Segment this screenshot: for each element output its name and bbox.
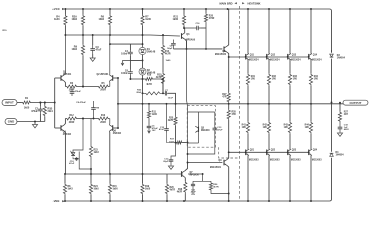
wire LED column: [141, 35, 144, 47]
transistor Q2 2N5401: [112, 75, 114, 81]
svg-text:MJ15003: MJ15003: [312, 159, 322, 161]
capacitor C7 10uF: [162, 92, 164, 94]
svg-text:Q11: Q11: [250, 54, 255, 56]
svg-text:MJ15024: MJ15024: [270, 59, 280, 62]
wire tail to cluster: [73, 119, 83, 153]
svg-text:1k43: 1k43: [54, 18, 60, 21]
svg-text:2N5403: 2N5403: [63, 133, 72, 136]
wire output Q22 emitter resistor (bottom): [268, 104, 270, 121]
wire +VCC top rail: [65, 9, 332, 53]
capacitor C9 56pF: [172, 40, 174, 42]
wire input: [17, 102, 22, 104]
wire second rail top: [65, 35, 179, 36]
wire predriver base: [173, 48, 222, 50]
ground terminal: [5, 119, 17, 125]
svg-text:MPSA06: MPSA06: [186, 39, 196, 42]
svg-text:2N5403: 2N5403: [113, 132, 122, 135]
transistor Q3 MPSA06 VAS: [181, 33, 183, 39]
wire Q4 collector down: [64, 131, 65, 174]
wire Q7 collector down: [184, 177, 187, 181]
resistor R7 10k0: [142, 9, 144, 15]
svg-text:1k00: 1k00: [152, 114, 158, 116]
svg-text:1N4004: 1N4004: [337, 56, 346, 59]
svg-text:1k43: 1k43: [68, 187, 74, 190]
svg-text:200R: 200R: [100, 90, 106, 92]
wire Q2 collector up: [109, 35, 111, 75]
svg-text:470uF: 470uF: [75, 90, 82, 93]
wire output Q23 emitter resistor (bottom): [289, 104, 291, 121]
resistor R4 1k43: [64, 9, 66, 15]
capacitor C8 470uF mid: [93, 101, 95, 105]
wire output Q21 emitter resistor (bottom): [247, 104, 249, 121]
zener D7 mark: [75, 157, 78, 161]
wire stack mid link: [130, 56, 141, 60]
wire output Q22 collector to rail: [268, 155, 270, 201]
wire ground bus: [17, 121, 45, 123]
svg-text:MJ15024: MJ15024: [249, 59, 259, 62]
wire C9 to base bus: [172, 47, 174, 49]
wire R14 to R10: [162, 56, 164, 72]
svg-text:Q24: Q24: [313, 149, 318, 152]
svg-text:GND: GND: [8, 120, 14, 124]
resistor R6 10k0: [109, 9, 111, 15]
wire Q8 emitter down: [227, 52, 229, 92]
svg-text:1k87: 1k87: [169, 141, 175, 143]
svg-text:47R: 47R: [232, 113, 237, 116]
diode D3 1N4004 top: [330, 54, 334, 57]
LED D2 1N4148: [139, 68, 146, 75]
wire R32 to bus: [268, 86, 270, 104]
resistor R20 470R: [205, 9, 207, 13]
svg-text:47R: 47R: [222, 95, 227, 98]
ground symbol input: [34, 122, 36, 125]
wire LED bottom: [142, 75, 144, 79]
svg-text:1k00: 1k00: [113, 188, 119, 190]
wire C3 tap: [83, 34, 93, 36]
ground arrow feedback shunt: [148, 130, 151, 134]
svg-text:100nF: 100nF: [121, 73, 128, 75]
wire cap row to R20 column: [200, 27, 206, 29]
ground C12: [170, 164, 172, 166]
capacitor C15 47uF: [166, 104, 168, 127]
wire output Q11 emitter: [247, 60, 249, 73]
svg-text:1R0: 1R0: [284, 127, 289, 129]
board split dashed line: [239, 6, 241, 199]
transistor Q8 MJE15030: [223, 46, 225, 52]
svg-text:10k0: 10k0: [94, 188, 100, 190]
resistor R1 1k00: [22, 101, 32, 104]
resistor R21 1k00: [183, 9, 185, 15]
wire stack bottom link: [130, 76, 142, 80]
transistor Q5 MJE340 bias: [198, 127, 200, 133]
resistor R9 10k0: [82, 35, 84, 44]
resistor R2A 10k0: [82, 9, 84, 15]
resistor R22 20k0 feedback: [143, 92, 144, 94]
wire output Q24 collector to rail: [310, 155, 312, 201]
resistor R11 1k00 feedback shunt: [148, 104, 150, 110]
resistor R19 1k00 (col4): [142, 174, 144, 183]
wire input base bus: [54, 78, 56, 128]
wire lower bus: [65, 173, 183, 175]
svg-text:MJ15003: MJ15003: [270, 159, 280, 161]
wire output Q23 collector to rail: [289, 155, 291, 201]
svg-text:MJ15024: MJ15024: [291, 59, 301, 62]
wire C11 R26 top bar: [193, 180, 211, 182]
svg-text:1k00: 1k00: [166, 60, 172, 62]
resistor R42 1R0 (bottom): [267, 121, 270, 134]
resistor R44 1R0 (bottom): [309, 121, 312, 134]
wire lower predriver base: [188, 162, 223, 164]
resistor R13 200R right lower: [97, 117, 110, 120]
resistor R23 4k7 (col5): [166, 174, 168, 183]
capacitor C5b 470uF shunt: [148, 119, 150, 125]
svg-text:10k0: 10k0: [71, 48, 77, 51]
wire Q6 collector down: [109, 131, 111, 174]
wire C15 down to R17 row: [167, 133, 176, 143]
svg-text:1N4004: 1N4004: [336, 154, 345, 157]
svg-text:1R0: 1R0: [242, 127, 247, 129]
svg-text:MJ15003: MJ15003: [291, 159, 301, 161]
svg-text:MJE15030: MJE15030: [215, 54, 227, 56]
transistor Q4 2N5551: [55, 127, 61, 129]
svg-text:470R: 470R: [209, 17, 215, 20]
wire Q6 emitter up: [109, 119, 111, 125]
svg-text:1R0: 1R0: [251, 78, 256, 80]
svg-text:1R0: 1R0: [272, 78, 277, 80]
svg-text:22pF: 22pF: [163, 161, 169, 163]
resistor R17 1k8 horizontal: [175, 142, 177, 144]
wire cluster L to column: [79, 152, 91, 175]
svg-text:1R0: 1R0: [293, 78, 298, 80]
transistor Q14 MJ15024 (top output): [308, 54, 310, 60]
svg-text:25V: 25V: [191, 194, 195, 196]
transistor Q12 MJ15024 (top output): [266, 54, 268, 60]
svg-text:Q12: Q12: [271, 54, 276, 56]
svg-text:Q22: Q22: [271, 150, 276, 152]
capacitor C3 47uF: [92, 35, 94, 45]
transistor Q22 MJ15025 (bottom output): [268, 134, 270, 149]
svg-text:4k7R: 4k7R: [213, 185, 219, 188]
svg-text:4k7R: 4k7R: [146, 83, 152, 86]
resistor R2 200R left: [65, 85, 78, 88]
capacitor C18 1uF zobel: [339, 123, 341, 125]
wire Q4 emitter up: [64, 119, 65, 125]
wire output Q21 collector to rail: [247, 155, 249, 201]
wire collector link to cap row: [184, 26, 195, 28]
svg-text:INPUT: INPUT: [5, 101, 14, 105]
wire Q7 emitter to bias col: [185, 163, 188, 171]
resistor R14 4k7: [162, 35, 164, 44]
svg-text:56pF: 56pF: [167, 48, 173, 50]
wire LED stack top link: [110, 43, 142, 45]
bias network dashed box: [187, 106, 215, 148]
wire c11 r26 bottom join: [193, 188, 229, 194]
junction dots: [64, 8, 66, 10]
svg-text:1R0: 1R0: [305, 127, 310, 129]
wire feedback base bus: [117, 78, 119, 128]
svg-text:Q14: Q14: [313, 53, 318, 56]
capacitor C4 100nF: [129, 44, 131, 50]
svg-text:400V: 400V: [344, 128, 350, 131]
svg-text:10uF: 10uF: [168, 98, 174, 100]
svg-text:1k00: 1k00: [24, 107, 30, 110]
svg-text:4k7R: 4k7R: [177, 190, 183, 193]
svg-text:Q23: Q23: [292, 150, 297, 152]
resistor R10 4k7: [161, 72, 164, 85]
wire Q8 collector to rail: [227, 9, 229, 46]
wire Q3 collector up: [184, 28, 186, 33]
svg-text:MJ15024: MJ15024: [312, 59, 322, 62]
svg-text:1k43: 1k43: [94, 151, 100, 154]
svg-text:4k7R: 4k7R: [165, 53, 171, 56]
resistor R26 4k7: [210, 180, 212, 183]
resistor R33 1R0 (top): [288, 73, 291, 86]
svg-text:47uF: 47uF: [217, 128, 223, 131]
svg-text:OUTPUT: OUTPUT: [350, 101, 362, 105]
transistor Q23 MJ15025 (bottom output): [289, 134, 291, 149]
output terminal: [343, 100, 368, 105]
svg-text:1R0: 1R0: [263, 127, 268, 129]
wire D3 to bus: [331, 59, 333, 103]
wire -VEE bottom rail: [65, 158, 332, 201]
wire mid column down: [142, 93, 144, 174]
svg-text:R18: R18: [147, 75, 152, 77]
svg-text:4R7: 4R7: [344, 113, 349, 116]
wire output Q14 collector column: [310, 9, 312, 54]
wire top base bus: [229, 56, 309, 58]
wire column91 to staple node: [90, 158, 92, 174]
svg-text:20k0: 20k0: [136, 92, 142, 94]
capacitor C11 47uF 25V: [192, 180, 194, 183]
wire bottom base bus: [229, 151, 309, 153]
wire bias Q5 column: [198, 112, 200, 143]
wire output Q13 collector column: [289, 9, 291, 54]
wire C8 to lower node: [93, 112, 95, 119]
svg-text:-VEE: -VEE: [53, 199, 60, 203]
diode D4 1N4004 bottom: [330, 153, 334, 156]
wire C11 R26 riser: [188, 174, 203, 181]
svg-text:MJE340: MJE340: [201, 129, 210, 132]
svg-text:Q2 2N5401: Q2 2N5401: [97, 73, 110, 76]
svg-text:470uF: 470uF: [31, 110, 38, 113]
wire Q9 collector down: [227, 166, 229, 201]
wire D4 to bus: [331, 103, 333, 152]
resistor R15 1k00 (col3): [109, 174, 111, 183]
wire bias column: [187, 41, 188, 163]
resistor R24 10k0 (col2): [90, 169, 92, 183]
wire tail node bottom: [78, 118, 97, 120]
transistor Q21 MJ15025 (bottom output): [247, 134, 249, 149]
svg-text:MJE15031: MJE15031: [210, 167, 222, 169]
wire output Q14 emitter: [310, 60, 312, 73]
svg-text:47uF: 47uF: [96, 49, 102, 52]
transistor Q1 2N5401: [55, 77, 61, 79]
svg-text:R12: R12: [69, 115, 74, 117]
resistor R5 200R right: [97, 85, 110, 88]
svg-text:R13: R13: [101, 115, 106, 117]
svg-text:MAIN BRD: MAIN BRD: [220, 1, 233, 5]
wire bias box bottom bar: [188, 142, 199, 144]
svg-text:200R: 200R: [100, 122, 106, 124]
wire output Q13 emitter: [289, 60, 291, 73]
dashed heatsink notch: [219, 147, 240, 158]
capacitor C5 470uF tail: [71, 87, 73, 90]
wire output Q11 collector column: [247, 9, 249, 54]
svg-text:100nF: 100nF: [121, 53, 128, 55]
svg-text:16V: 16V: [152, 130, 156, 132]
svg-text:1k00: 1k00: [172, 18, 178, 21]
svg-text:4k7R: 4k7R: [170, 188, 176, 191]
transistor Q6 2N5551: [112, 125, 114, 131]
resistor R28 47R lower: [227, 109, 230, 120]
resistor R27 47R: [227, 92, 230, 103]
capacitor C12 22pF: [171, 143, 176, 158]
wire output Q12 emitter: [268, 60, 270, 73]
svg-text:1k00: 1k00: [145, 18, 151, 21]
svg-text:Q13: Q13: [292, 54, 297, 56]
svg-text:10k0: 10k0: [71, 18, 77, 21]
wire between LEDs: [142, 55, 144, 69]
wire input node: [32, 102, 55, 104]
transistor Q24 MJ15025 (bottom output): [310, 134, 312, 149]
wire output bus: [118, 103, 343, 105]
wire R31 to bus: [247, 86, 249, 104]
wire Q3 emitter to bias column: [185, 39, 187, 49]
capacitor C16 47nF series: [195, 27, 200, 29]
input terminal: [2, 100, 17, 106]
transistor Q9 MJE15031: [223, 160, 225, 166]
capacitor C13 47uF bias: [214, 112, 216, 125]
svg-text:10k0: 10k0: [98, 18, 104, 21]
svg-text:C8 470uF: C8 470uF: [76, 101, 86, 104]
svg-text:200R: 200R: [69, 122, 75, 124]
transistor Q11 MJ15024 (top output): [245, 54, 247, 60]
svg-text:MJ15003: MJ15003: [249, 159, 259, 161]
wire tail node top: [78, 86, 97, 88]
resistor R23 1k43: [89, 145, 92, 158]
resistor R34 1R0 (top): [309, 73, 312, 86]
wire R20 to Q8 base bus: [205, 23, 207, 49]
wire output Q12 collector column: [268, 9, 270, 54]
wire Q2 emitter: [109, 81, 111, 86]
wire R18 row: [143, 78, 164, 80]
svg-text:+VCC: +VCC: [52, 7, 61, 11]
LED D1 1N4148: [139, 47, 146, 54]
resistor R1B 22k1: [44, 103, 46, 106]
resistor R25 4k7 bias: [175, 104, 177, 116]
resistor R31 1R0 (top): [246, 73, 249, 86]
wire Q9 emitter up: [227, 120, 229, 159]
wire R33 to bus: [289, 86, 291, 104]
svg-text:4k7R: 4k7R: [168, 119, 174, 122]
wire tail column top: [82, 74, 84, 87]
resistor R16 4k7 q7: [184, 181, 187, 194]
svg-text:22k1: 22k1: [48, 110, 54, 113]
resistor R43 1R0 (bottom): [288, 121, 291, 134]
resistor R32 1R0 (top): [267, 73, 270, 86]
wire Q1 collector up: [64, 35, 65, 75]
svg-text:1R0: 1R0: [314, 78, 319, 80]
wire C13 down corner: [188, 133, 215, 154]
wire bias box internal top bar: [188, 111, 215, 113]
wire column91 upper: [90, 119, 92, 146]
svg-text:1k00: 1k00: [145, 188, 151, 190]
resistor R12 200R left lower: [65, 117, 78, 120]
capacitor C6 100nF: [129, 60, 131, 69]
wire Q1 emitter: [64, 81, 65, 86]
transistor Q7 MPSA56 lower driver: [181, 171, 183, 177]
wire R34 to bus: [310, 86, 312, 104]
diode D5 reference: [71, 153, 75, 156]
svg-text:Q21: Q21: [250, 150, 255, 152]
svg-text:47uF: 47uF: [69, 162, 75, 165]
resistor R8 1k43 (col1): [63, 183, 66, 195]
resistor R41 1R0 (bottom): [246, 121, 249, 134]
ground zobel: [339, 132, 341, 133]
wire output Q24 emitter resistor (bottom): [310, 104, 312, 121]
ground arrow mid: [121, 60, 130, 65]
svg-text:47uF: 47uF: [159, 128, 165, 131]
transistor Q13 MJ15024 (top output): [287, 54, 289, 60]
svg-text:1N4148: 1N4148: [147, 51, 156, 54]
capacitor C2 470uF: [39, 103, 41, 107]
resistor R27 4R7 zobel: [338, 111, 341, 123]
wire R18 to R22 links: [143, 79, 164, 93]
resistor R18 4k7 bootstrap: [145, 78, 154, 81]
ground for C3: [92, 54, 94, 58]
wire zobel tap: [339, 103, 341, 111]
svg-text:HEATSINK: HEATSINK: [247, 1, 260, 5]
